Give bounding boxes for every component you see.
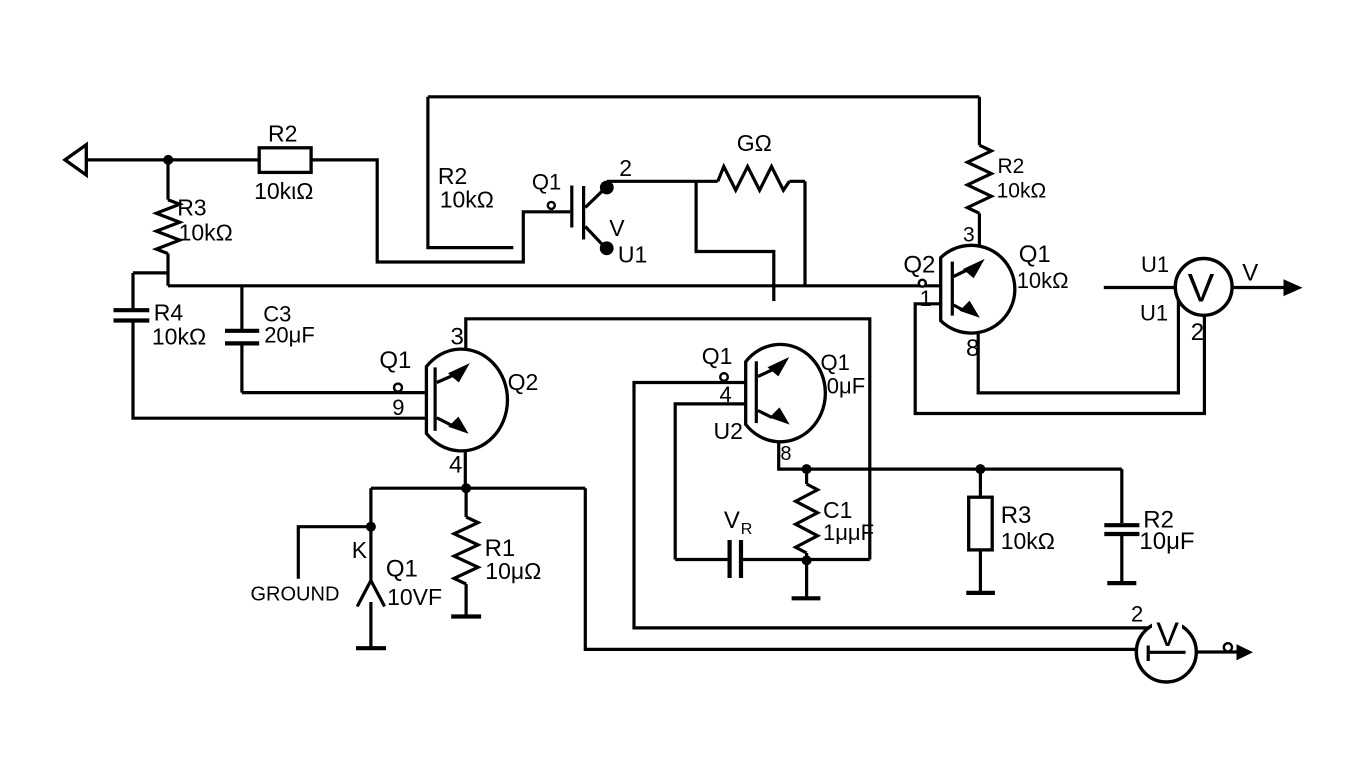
svg-text:R: R: [741, 521, 753, 538]
svg-text:9: 9: [392, 395, 404, 420]
capacitor C3: [225, 286, 315, 393]
svg-text:10μF: 10μF: [1139, 528, 1194, 555]
transistor U2 (center, BJT in D-shape body): [702, 343, 865, 465]
svg-text:10kΩ: 10kΩ: [152, 324, 206, 350]
voltmeter U1 (top right): [1175, 259, 1232, 347]
svg-text:Q1: Q1: [386, 556, 418, 583]
resistor C1 (vertical zigzag): [796, 469, 874, 560]
svg-text:10kιΩ: 10kιΩ: [254, 178, 313, 204]
ground stub below C1: [792, 560, 821, 598]
svg-text:10kΩ: 10kΩ: [179, 220, 233, 246]
svg-text:R4: R4: [154, 299, 184, 325]
resistor R2 (box style, top left): [254, 121, 313, 205]
wire C1 node to R2 cap (right): [807, 468, 1122, 471]
svg-text:V: V: [724, 507, 740, 534]
svg-text:GROUND: GROUND: [251, 584, 340, 606]
label R2 10kOhm (near IGBT): [438, 163, 494, 213]
wire loop from top bus (dead end near IGBT): [428, 97, 513, 248]
resistor R1 (vertical zigzag): [451, 488, 541, 616]
output arrow (top right): [1284, 279, 1303, 296]
transistor Q2 (left, BJT in D-shape body): [379, 347, 538, 479]
node dot C1 top: [802, 464, 812, 474]
node dot above R3: [975, 464, 985, 474]
svg-text:U1: U1: [1140, 301, 1168, 326]
svg-text:10kΩ: 10kΩ: [1001, 528, 1055, 554]
svg-text:R3: R3: [1001, 502, 1032, 529]
wire U2 emitter to C1 top node: [779, 442, 807, 469]
svg-text:V: V: [1156, 616, 1179, 654]
svg-text:U1: U1: [618, 242, 647, 268]
svg-text:4: 4: [720, 382, 732, 407]
svg-text:K: K: [352, 537, 368, 563]
svg-text:R2: R2: [268, 121, 297, 147]
svg-text:Q2: Q2: [508, 369, 539, 395]
wire R4 bottom to Q2 pin 9: [133, 323, 426, 419]
main horizontal bus (node): [168, 284, 941, 287]
wire pin8 of Q1-right to voltmeter lower-left: [978, 300, 1178, 393]
open circle at Q2-left base: [394, 384, 402, 392]
svg-text:Q1: Q1: [821, 350, 850, 375]
node dot C1 bottom: [802, 555, 812, 565]
open circle at Q1-right base: [919, 280, 926, 287]
svg-text:2: 2: [1191, 319, 1204, 346]
open circle at IGBT gate: [548, 202, 555, 209]
wire stub below GOhm: [696, 181, 774, 301]
svg-text:Q2: Q2: [903, 252, 935, 279]
svg-text:10kΩ: 10kΩ: [997, 180, 1047, 203]
svg-text:0μF: 0μF: [827, 374, 865, 399]
wire Q2-left emitter down to node 4: [464, 451, 467, 489]
svg-text:U1: U1: [1141, 252, 1169, 277]
wire Q2-left collector to right side: [466, 319, 870, 560]
svg-text:GΩ: GΩ: [737, 130, 772, 156]
wire GOhm right to main bus: [789, 181, 805, 285]
svg-text:8: 8: [780, 443, 791, 465]
voltmeter/source V (bottom right): [1136, 614, 1196, 682]
svg-text:V: V: [609, 215, 625, 241]
wire node4 down to K: [352, 488, 376, 580]
pin dot 2 (IGBT collector): [600, 155, 632, 194]
resistor R3 (vertical zigzag): [156, 160, 233, 286]
wire C3 to Q2 base: [242, 391, 426, 394]
transistor Q1 (IGBT symbol, top center): [532, 170, 604, 246]
capacitor R2 10uF (right): [1104, 469, 1194, 583]
svg-text:2: 2: [1131, 602, 1143, 627]
wire voltmeter to output arrow: [1232, 260, 1284, 288]
svg-text:R2: R2: [438, 163, 467, 189]
svg-text:Q1: Q1: [379, 347, 411, 374]
svg-text:R2: R2: [998, 155, 1025, 178]
pin dot U1/V (IGBT emitter): [600, 215, 648, 268]
top bus wire: [428, 95, 980, 98]
wire U2 pin4 loop: [675, 404, 746, 560]
node 4 bus: [371, 483, 585, 493]
wire IGBT collector to resistor GOhm: [607, 180, 718, 183]
resistor R3 (box style, right): [966, 469, 1055, 593]
resistor GOhm (horizontal zigzag): [718, 130, 790, 190]
svg-text:3: 3: [451, 324, 464, 351]
svg-text:1: 1: [920, 286, 932, 311]
pin label 3 (Q2 left top): [451, 324, 464, 351]
svg-text:20μF: 20μF: [264, 322, 315, 347]
pin label 2 (bottom voltmeter): [1131, 602, 1143, 627]
wire bottom voltmeter to output: [1196, 650, 1237, 653]
svg-text:4: 4: [449, 452, 462, 479]
svg-text:2: 2: [619, 155, 632, 181]
pin label 3 (Q1 right top): [963, 224, 975, 247]
svg-text:10μΩ: 10μΩ: [485, 558, 541, 584]
svg-text:R3: R3: [177, 195, 206, 221]
svg-text:Q1: Q1: [702, 343, 733, 369]
wire input to R2 box: [86, 158, 259, 161]
input terminal arrow (left): [65, 145, 86, 175]
svg-text:10VF: 10VF: [387, 584, 442, 610]
wire R3 bottom to R4 branch: [133, 273, 168, 308]
battery Q1 10VF (chevron symbol): [356, 556, 442, 649]
svg-text:Q1: Q1: [532, 170, 561, 195]
node junction dot at input: [163, 155, 173, 165]
svg-text:3: 3: [963, 224, 975, 247]
svg-text:Q1: Q1: [1019, 241, 1051, 268]
svg-text:1μμF: 1μμF: [823, 520, 874, 545]
wire pin1 of Q1-right to voltmeter pin2: [915, 304, 1204, 414]
svg-text:10kΩ: 10kΩ: [1017, 268, 1069, 293]
resistor R2 (top right, vertical zigzag): [967, 97, 1046, 246]
wire U1 to voltmeter: [1104, 252, 1176, 326]
capacitor R4 (horizontal plates): [114, 299, 207, 349]
output arrow (bottom right): [1237, 644, 1254, 660]
capacitor V_R (vertical plates): [675, 507, 870, 578]
wire R2 box to IGBT gate: [311, 160, 570, 262]
svg-text:V: V: [1242, 260, 1258, 287]
open circle at bottom output: [1224, 643, 1232, 651]
wire K to GROUND: [251, 527, 371, 606]
open circle at U2 base: [720, 373, 728, 381]
svg-text:10kΩ: 10kΩ: [440, 187, 494, 213]
transistor Q1 10kOhm (right, BJT in D-shape body): [903, 241, 1068, 362]
svg-text:V: V: [1188, 267, 1215, 311]
wire U2 base loop left: [634, 383, 1148, 628]
svg-text:U2: U2: [714, 418, 743, 444]
wire node4 right down to bottom voltmeter: [585, 488, 1136, 649]
